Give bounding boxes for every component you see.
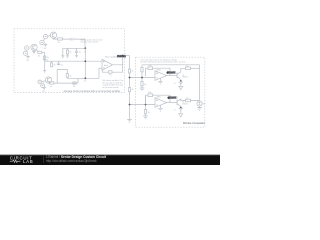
wire cluster A interconnect — [44, 35, 51, 41]
junction Q5 emitter — [180, 106, 182, 108]
wire top supply rail — [142, 64, 200, 66]
op-amp U3 — [155, 98, 167, 108]
net flag out/avg — [117, 55, 126, 58]
feedback resistor R7 — [102, 65, 122, 73]
wire op-amp U2 output — [167, 75, 178, 77]
junction divider row2 — [144, 103, 146, 105]
svg-text:2N2222: 2N2222 — [182, 77, 188, 79]
ground stub below row1 — [43, 61, 46, 73]
junction node B — [84, 60, 86, 62]
wire tap row1 — [130, 77, 156, 79]
wire ladder vertical — [129, 56, 131, 120]
wire stub + ground (left end) — [61, 48, 64, 58]
ground (op-amp U2) — [158, 78, 163, 84]
collector resistor R16 — [186, 99, 191, 102]
ground (cluster C) — [43, 87, 46, 90]
wire out/avg to ladder — [126, 55, 130, 57]
voltage source V3 (cluster B) — [25, 46, 29, 50]
wire Q5 collector to rail — [181, 99, 200, 101]
voltage source V5 (cluster C) — [38, 80, 42, 84]
svg-text:OverV2: OverV2 — [169, 98, 178, 100]
wire cluster B to RC row — [42, 52, 45, 61]
svg-text:Window Comparator: Window Comparator — [183, 122, 205, 125]
collector resistor R13 — [186, 67, 200, 70]
resistor R8 (ladder) — [128, 69, 130, 73]
footer divider — [43, 156, 45, 163]
op-amp U1 — [102, 59, 113, 70]
svg-text:LM741: LM741 — [156, 96, 161, 98]
wire Q4 collector to rail — [181, 68, 186, 72]
junction tap2 — [128, 103, 130, 105]
voltage source V1 (cluster A) — [43, 34, 47, 38]
junction out/avg — [122, 54, 124, 56]
ground (Q5) — [179, 114, 183, 118]
svg-text:LM741: LM741 — [156, 69, 161, 71]
svg-text:Av=2: Av=2 — [104, 64, 108, 67]
svg-text:of the three inputs: of the three inputs — [103, 86, 119, 89]
capacitor C1 (hang) — [75, 48, 78, 55]
battery B2 +5 — [179, 108, 183, 114]
divider rail row2 — [145, 96, 147, 117]
transistor Q4 — [177, 72, 181, 80]
svg-text:2N2222: 2N2222 — [182, 103, 188, 105]
divider rail row1 — [141, 65, 143, 88]
junction node A — [84, 47, 86, 49]
junction tap1 — [128, 76, 130, 78]
right dashed enclosure box — [136, 57, 205, 127]
net flag comp1 — [167, 71, 175, 74]
wire row2 — [67, 68, 102, 78]
wire cluster C interconnect — [42, 81, 46, 84]
resistor R3 (on vertical) — [44, 56, 46, 60]
wire op-amp output — [113, 56, 123, 65]
svg-text:http://circuitlab.com/csxkau3j: http://circuitlab.com/csxkau3jh6mwk — [46, 159, 97, 163]
wire node row y=64.5 — [45, 60, 102, 62]
svg-text:1k: 1k — [84, 81, 86, 83]
voltage source V2 (cluster A) — [40, 40, 44, 44]
svg-text:Basic Op-Amp: Basic Op-Amp — [105, 56, 117, 59]
voltage source V6 (cluster C) — [41, 84, 45, 88]
resistor R10 — [141, 68, 143, 72]
ground (divider row2) — [143, 116, 148, 119]
resistor R17 (on loop) — [66, 74, 68, 78]
svg-text:network of the system: network of the system — [81, 41, 99, 44]
voltage source V4 (cluster B) — [23, 51, 27, 55]
op-amp U2 — [155, 71, 167, 81]
feedback resistor R12 — [146, 67, 171, 76]
transistor Q3 (cluster C) — [45, 77, 51, 83]
resistor R18 (inline lower row) — [73, 82, 76, 84]
capacitor C3 (series) — [71, 38, 74, 41]
battery B1 +5 — [179, 81, 183, 86]
junction node C — [84, 77, 86, 79]
ground (Q4) — [179, 86, 183, 90]
svg-text:1k: 1k — [84, 51, 86, 53]
ground (op-amp U3) — [158, 105, 163, 111]
resistor R14 — [144, 110, 146, 114]
ground (cluster A) — [44, 43, 47, 46]
ground (cluster B under transistor) — [32, 51, 35, 54]
svg-text:+5: +5 — [174, 110, 176, 112]
svg-text:Q1: Q1 — [182, 75, 184, 77]
transistor Q2 (cluster B) — [31, 44, 37, 50]
ground (divider row1) — [140, 88, 145, 91]
resistor R2 (cluster B emitter) — [37, 50, 42, 53]
footer bar — [0, 154, 220, 155]
wire loop to lower row — [57, 70, 67, 84]
wire node row y=48.5 — [63, 47, 86, 49]
junction divider row1 — [141, 76, 143, 78]
wire op-amp U3 output — [167, 102, 178, 104]
wire Q4 emitter — [180, 80, 182, 81]
wire node row y=83.7 — [54, 78, 78, 83]
svg-text:LAB: LAB — [23, 159, 33, 164]
resistor R1 (cluster A emitter) — [54, 38, 63, 40]
left dashed enclosure box — [14, 29, 125, 93]
wire tap row2 — [130, 104, 156, 106]
wire from R1 to node — [62, 39, 85, 48]
svg-text:the LED will indicate that a t: the LED will indicate that a threshold h… — [140, 61, 185, 64]
ground (ladder) — [127, 120, 132, 123]
voltage source V7 — [197, 101, 202, 106]
wire vertical junction column x=85.3 — [84, 48, 86, 78]
wire Q5 emitter — [180, 106, 182, 107]
ground (R4) — [66, 56, 69, 58]
svg-text:Average Circuit combined with: Average Circuit combined with a non-inve… — [64, 90, 121, 93]
logo resistor glyph — [10, 160, 21, 163]
ground (C1) — [75, 55, 78, 57]
svg-text:OverV1: OverV1 — [168, 73, 177, 75]
resistor R5 (hang) — [50, 61, 52, 67]
svg-text:Q2: Q2 — [182, 102, 184, 104]
transistor Q1 (cluster A) — [50, 32, 56, 38]
wire right supply rail — [199, 65, 201, 101]
ground (V7) — [197, 106, 202, 110]
capacitor C2 (hang) — [57, 61, 60, 65]
resistor R11 — [141, 82, 143, 86]
net flag comp2 — [168, 96, 176, 99]
transistor Q5 — [177, 99, 181, 107]
junction Q4 emitter — [180, 80, 182, 82]
svg-text:+5: +5 — [174, 83, 176, 85]
ground (cluster B left) — [26, 55, 29, 58]
feedback resistor R15 — [146, 94, 171, 105]
resistor R6 (cluster C emitter) — [49, 82, 54, 84]
resistor R4 (hang) — [66, 48, 68, 55]
resistor R9 (ladder) — [128, 88, 130, 92]
